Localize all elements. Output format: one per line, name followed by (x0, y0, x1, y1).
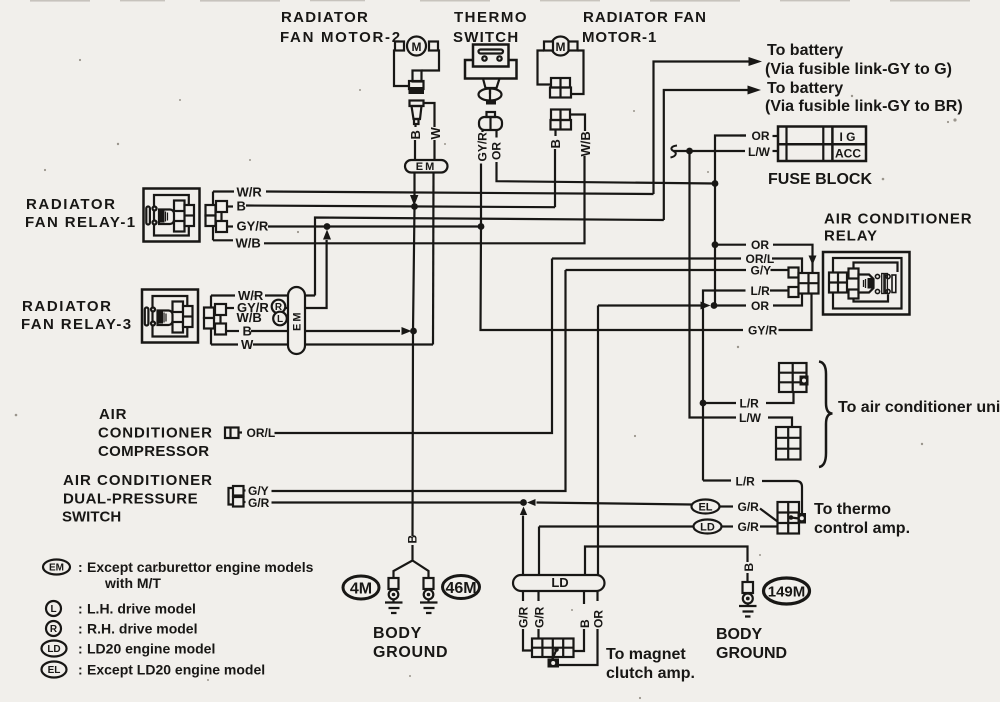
wire relay-1 W/R line to battery-1 riser (266, 192, 654, 195)
wire L/R pin line from AC relay to L/R column (703, 284, 789, 481)
svg-text:AIR CONDITIONER: AIR CONDITIONER (824, 211, 973, 228)
connector to thermo control amp (778, 502, 807, 534)
wire motor-2 W branch (424, 103, 435, 127)
svg-text:M: M (412, 40, 422, 54)
svg-text:DUAL-PRESSURE: DUAL-PRESSURE (63, 491, 198, 508)
model mark L circle (273, 312, 287, 326)
legend LD (42, 641, 216, 657)
wire thermo GY/R lead (481, 130, 483, 132)
node junction B trunk relay-3 (410, 328, 417, 335)
svg-text:LD: LD (47, 644, 60, 655)
svg-text:EM: EM (49, 563, 64, 574)
svg-text:RADIATOR FAN: RADIATOR FAN (583, 9, 707, 26)
wire relay-1 W/R label lead (213, 185, 262, 200)
svg-text:149M: 149M (768, 584, 806, 601)
svg-text:L.H. drive model: L.H. drive model (87, 601, 196, 617)
ground symbol (149M) (739, 604, 757, 617)
wire G/R riser from LD bar to G/R LD corner (538, 527, 540, 576)
wire G/Y label lead (dual-pressure) (244, 484, 269, 498)
svg-text:W/B: W/B (236, 236, 261, 251)
thermo switch lower connector (479, 112, 502, 130)
wire G/R LD into thermo amp connector (760, 525, 778, 527)
node junction OR/thermo line (712, 180, 719, 187)
svg-text:G/R: G/R (248, 496, 270, 510)
wire fuse L/W lead (673, 150, 778, 152)
svg-text:EL: EL (48, 665, 61, 676)
wire relay-1 GY/R line to thermo GY/R column (268, 225, 481, 227)
wire motor-2 B down to EM (414, 140, 416, 160)
radiator fan motor-2 lower connector (410, 101, 424, 125)
label BODY GROUND (left) (373, 625, 448, 661)
svg-text:ACC: ACC (835, 147, 861, 161)
connector LD bar (513, 575, 605, 591)
wire OR riser from LD bar to OR-2 feed corner (597, 306, 599, 576)
svg-text:46M: 46M (445, 580, 476, 597)
svg-text:To magnet: To magnet (606, 646, 686, 663)
wire motor-1 B lead (554, 130, 556, 137)
svg-text:FAN RELAY-1: FAN RELAY-1 (25, 214, 137, 231)
svg-text:FUSE BLOCK: FUSE BLOCK (768, 171, 872, 188)
wire B trunk split to grounds (394, 545, 429, 578)
wire G/R LD line from riser (539, 525, 694, 527)
model mark R circle (272, 300, 286, 314)
label To magnet clutch amp (606, 646, 695, 682)
connector ground terminal 4M (389, 578, 399, 599)
svg-text:RELAY: RELAY (824, 228, 878, 245)
svg-text:B: B (578, 619, 592, 628)
wire motor-1 B down to B line corner (554, 149, 556, 207)
thermo switch body (465, 45, 517, 105)
legend EL (42, 662, 266, 678)
wire B trunk down to ground split (413, 207, 415, 537)
connector ground terminal 46M (424, 578, 434, 599)
label BODY GROUND (right) (716, 626, 787, 662)
arrowhead to battery-2 (748, 86, 762, 95)
wire G/R label (LD) (722, 520, 760, 534)
wire G/R riser from LD bar to G/R junction (522, 516, 524, 576)
svg-text:B: B (408, 130, 423, 139)
svg-text:MOTOR-1: MOTOR-1 (582, 29, 657, 46)
wire thermo GY/R down to AC relay GY/R run (481, 227, 744, 331)
wire B down to 149M terminal (746, 573, 748, 582)
svg-text:To battery: To battery (767, 42, 843, 59)
svg-text:L: L (277, 314, 283, 325)
connector ground terminal 149M (743, 582, 754, 604)
svg-text:AIR CONDITIONER: AIR CONDITIONER (63, 472, 213, 489)
wire G/R label lead (dual-pressure) (244, 496, 270, 510)
connector LD oval (694, 520, 722, 534)
wire fuse OR lead dashes (740, 134, 778, 137)
wire relay-1 W/B line to motor-1 W/B corner (264, 242, 578, 244)
svg-text:L/R: L/R (740, 397, 760, 411)
svg-text::: : (78, 662, 83, 678)
wire motor-1 W/B branch (570, 115, 585, 132)
arrowhead to battery-1 (749, 57, 763, 66)
label To battery (via GY to BR) (765, 80, 963, 115)
wire W/R riser to battery-1 arrow (654, 62, 751, 195)
wire relay-3 W/R label lead (211, 288, 264, 303)
wire B riser from LD bar to 149M ground run (585, 547, 748, 576)
svg-text:(Via fusible link-GY to G): (Via fusible link-GY to G) (765, 61, 952, 78)
label AIR CONDITIONER DUAL-PRESSURE SWITCH (62, 472, 213, 526)
wire G/R EL diagonal into thermo amp connector (760, 509, 778, 522)
arrowhead up from magnet clutch G/R riser (520, 507, 527, 516)
svg-text:LD20 engine model: LD20 engine model (87, 641, 215, 657)
svg-text:COMPRESSOR: COMPRESSOR (98, 443, 209, 460)
svg-text:B: B (237, 199, 246, 214)
svg-text::: : (78, 641, 83, 657)
wire G/Y line to riser up to AC relay (272, 270, 566, 491)
connector code oval 149M (764, 578, 810, 604)
svg-text:Except LD20 engine model: Except LD20 engine model (87, 662, 265, 678)
svg-text:GROUND: GROUND (373, 644, 448, 661)
svg-text:BODY: BODY (716, 626, 763, 643)
svg-text:R: R (50, 624, 58, 635)
connector EM oval (relay-3) (288, 287, 305, 354)
wire relay-1 B line to motor-1 B corner (246, 206, 555, 208)
svg-text:OR: OR (490, 142, 504, 160)
label AIR CONDITIONER RELAY (824, 211, 973, 245)
wire thermo GY/R down (480, 164, 482, 227)
connector dual-pressure switch (229, 486, 244, 507)
label RADIATOR FAN RELAY-3 (21, 298, 133, 333)
wire OR below LD bar (596, 591, 598, 601)
wire fuse OR down to junction column (715, 136, 746, 306)
wire G/R to EL oval (537, 503, 692, 505)
svg-text:L/R: L/R (751, 284, 771, 298)
svg-text:G/R: G/R (517, 606, 531, 628)
svg-text:G/R: G/R (738, 500, 760, 514)
svg-text:with M/T: with M/T (104, 575, 161, 591)
legend L (46, 601, 196, 617)
node junction GY/R thermo column (478, 223, 485, 230)
wire relay-3 W/R riser to battery-2 arrow (664, 90, 749, 220)
svg-text:FAN RELAY-3: FAN RELAY-3 (21, 316, 133, 333)
wire thermo OR down and right to fuse OR junction (497, 162, 716, 184)
svg-text:GROUND: GROUND (716, 645, 787, 662)
wire relay-3 B line with arrow to B trunk (251, 330, 400, 332)
svg-text:L/R: L/R (736, 475, 756, 489)
svg-text:EL: EL (698, 502, 712, 514)
node junction L/R AC unit (700, 400, 707, 407)
svg-text:B: B (548, 139, 563, 148)
arrowhead down into AC relay connector (809, 256, 817, 266)
wire L/W into AC unit lower connector (768, 418, 792, 428)
svg-text:I G: I G (840, 130, 856, 144)
ground symbol (46M) (420, 599, 438, 613)
svg-text:W/R: W/R (237, 185, 263, 200)
node junction L/W column (686, 148, 693, 155)
svg-text:OR: OR (751, 299, 769, 313)
wire L/R line to thermo amp (703, 475, 802, 514)
svg-text:To battery: To battery (767, 80, 843, 97)
connector EL oval (692, 500, 720, 514)
legend EM (43, 559, 314, 591)
svg-text:L: L (50, 604, 56, 615)
wire motor-2 W down to EM (433, 140, 435, 160)
wire G/R 2 into magnet clutch connector (537, 629, 539, 639)
wire motor-2 B lead (414, 124, 416, 127)
svg-text:OR: OR (592, 610, 606, 628)
svg-text:G/R: G/R (738, 520, 760, 534)
svg-text:RADIATOR: RADIATOR (26, 196, 117, 213)
wire relay-1 W/B label lead (213, 236, 261, 251)
svg-text:GY/R: GY/R (476, 132, 490, 162)
svg-text:RADIATOR: RADIATOR (281, 9, 369, 26)
svg-text:(Via fusible link-GY to BR): (Via fusible link-GY to BR) (765, 98, 963, 115)
svg-text:OR: OR (752, 129, 770, 143)
fuse block box (778, 127, 866, 162)
wire L/R line from column to AC unit upper connector (703, 392, 794, 411)
label RADIATOR FAN RELAY-1 (25, 196, 137, 231)
svg-text:GY/R: GY/R (237, 219, 269, 234)
wire G/R 2 below LD bar (537, 591, 539, 601)
wire relay-1 B label lead (227, 199, 246, 214)
svg-text:G/Y: G/Y (751, 264, 772, 278)
svg-text:OR/L: OR/L (247, 426, 276, 440)
wire OR-2 line to AC relay (714, 294, 802, 314)
svg-text:EM: EM (416, 161, 437, 173)
connector code oval 46M (443, 576, 480, 599)
wire relay-3 W/R to riser (265, 294, 315, 296)
label THERMO SWITCH (453, 9, 528, 46)
svg-text:AIR: AIR (99, 406, 127, 423)
svg-text:BODY: BODY (373, 625, 422, 642)
wire relay-3 GY/R label lead (226, 300, 269, 315)
wire B into magnet clutch connector (574, 629, 585, 651)
svg-text:G/R: G/R (533, 606, 547, 628)
relay U2 AIR CONDITIONER RELAY box (823, 252, 910, 315)
connector compressor (225, 428, 242, 439)
svg-text:To air conditioner unit: To air conditioner unit (838, 399, 1000, 416)
svg-text::: : (78, 601, 83, 617)
connector relay-1 pins (206, 192, 228, 241)
wire relay-3 W/R riser line across (315, 218, 664, 296)
label To thermo control amp (814, 501, 910, 537)
arrowhead down at B junction (410, 195, 418, 206)
radiator fan motor-2 body (394, 37, 439, 95)
relay U1 RADIATOR FAN RELAY-1 box (144, 189, 200, 242)
wire G/R label (EL) (720, 500, 760, 514)
svg-text:4M: 4M (350, 581, 372, 598)
svg-text:W: W (241, 337, 254, 352)
wire L/W down to AC unit (690, 151, 737, 418)
label To battery (via GY to G) (765, 42, 952, 78)
wire fuse L/W squiggle (671, 146, 678, 158)
svg-text:Except carburettor engine mode: Except carburettor engine models (87, 559, 314, 575)
node junction GY/R relay-3 riser (324, 223, 331, 230)
arrowhead left at G/R junction (527, 499, 536, 506)
node junction OR-2 (711, 302, 718, 309)
wire relay-3 GY/R riser with arrow to GY/R junction (286, 240, 327, 308)
brace to air conditioner unit (819, 362, 833, 468)
node junction B trunk (411, 203, 418, 210)
wire relay-1 GY/R label lead (227, 219, 269, 234)
svg-text:SWITCH: SWITCH (62, 509, 121, 526)
connector magnet clutch (532, 639, 574, 668)
legend R (46, 621, 197, 637)
svg-text:clutch amp.: clutch amp. (606, 665, 695, 682)
svg-text:To thermo: To thermo (814, 501, 891, 518)
wire OR/L line from compressor riser to AC relay (552, 252, 802, 273)
wire B trunk from EM down to B line junction (413, 173, 415, 197)
svg-text::: : (78, 621, 83, 637)
svg-text:THERMO: THERMO (454, 9, 528, 26)
connector code oval 4M (343, 576, 379, 599)
ground symbol (4M) (385, 599, 403, 613)
connector AC unit lower (776, 427, 801, 460)
svg-text:B: B (406, 535, 420, 544)
relay U3 RADIATOR FAN RELAY-3 box (142, 290, 198, 343)
arrowhead right at B trunk junction (402, 327, 412, 335)
connector AC relay pins (789, 268, 819, 298)
svg-text:W/B: W/B (578, 131, 593, 156)
svg-text:W: W (428, 127, 443, 140)
wire thermo OR lead (495, 130, 497, 138)
svg-text:LD: LD (551, 575, 568, 590)
wire OR/L from compressor to riser (275, 259, 553, 434)
svg-text:L/W: L/W (739, 411, 762, 425)
wire W from EM down to W corner (432, 173, 435, 345)
wire relay-3 B label lead (226, 324, 252, 339)
scan artifacts top edge (30, 0, 970, 2)
wire OR to magnet clutch pointer square (559, 629, 598, 665)
svg-text::: : (78, 559, 83, 575)
wire GY/R into AC relay connector (779, 293, 812, 331)
label RADIATOR FAN MOTOR-2 (280, 9, 402, 46)
svg-text:RADIATOR: RADIATOR (22, 298, 113, 315)
wire G/Y line from riser to AC relay pin (566, 264, 789, 278)
arrowhead right at OR-2 junction (701, 302, 711, 310)
svg-text:CONDITIONER: CONDITIONER (98, 425, 213, 442)
svg-text:M: M (556, 40, 566, 54)
arrowhead up at GY/R junction (323, 230, 331, 240)
svg-text:R.H. drive model: R.H. drive model (87, 621, 197, 637)
wire G/R 1 into magnet clutch connector (523, 629, 532, 651)
wire motor-1 W/B down to W/B line corner (578, 156, 585, 243)
node junction OR-1 (712, 241, 719, 248)
svg-text:B: B (742, 563, 756, 572)
wire G/R 1 below LD bar (522, 591, 524, 601)
svg-text:OR: OR (751, 238, 769, 252)
node junction G/R (520, 499, 527, 506)
svg-text:L/W: L/W (748, 145, 771, 159)
svg-text:EM: EM (292, 311, 304, 332)
svg-text:GY/R: GY/R (748, 324, 778, 338)
wire relay-3 W line to motor-2 W column (253, 343, 433, 345)
svg-text:control amp.: control amp. (814, 520, 910, 537)
wire OR-1 line from column to AC relay (715, 238, 813, 273)
svg-text:LD: LD (700, 522, 715, 534)
wire relay-3 W label lead (211, 337, 254, 352)
wire OR-2 feed with arrow from magnet clutch riser (598, 304, 701, 306)
connector relay-3 pins (204, 296, 226, 345)
wire B below LD bar (583, 591, 585, 604)
label AIR CONDITIONER COMPRESSOR (98, 406, 213, 460)
connector EM oval (motor-2) (405, 160, 448, 173)
svg-text:FAN MOTOR-2: FAN MOTOR-2 (280, 29, 402, 46)
radiator fan motor-1 body (538, 37, 584, 98)
connector AC unit upper (779, 363, 809, 392)
wire G/R line to EL junction (272, 501, 524, 503)
radiator fan motor-1 lower connector (551, 110, 572, 130)
label RADIATOR FAN MOTOR-1 (582, 9, 707, 46)
